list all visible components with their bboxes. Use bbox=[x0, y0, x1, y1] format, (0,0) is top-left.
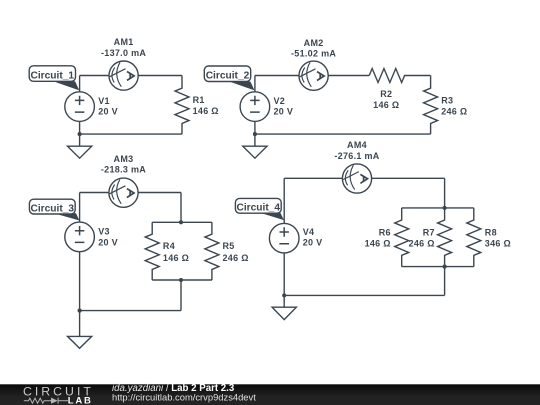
node junction dot C1 bbox=[78, 132, 82, 136]
wire: C3 top-right from AM3 to corner bbox=[138, 192, 181, 194]
resistor R2 bbox=[369, 69, 430, 83]
CircuitLab logo wordmark CIRCUIT bbox=[23, 384, 94, 398]
svg-text:146 Ω: 146 Ω bbox=[163, 253, 189, 263]
svg-text:246 Ω: 246 Ω bbox=[441, 107, 467, 117]
wire: C2 top from V2 corner to AM2 bbox=[255, 75, 299, 77]
ground C2 bbox=[243, 146, 267, 158]
node Circuit_3 callout bbox=[29, 199, 79, 220]
wire: C1 top-left from V1 corner to AM1 bbox=[80, 75, 109, 77]
CircuitLab logo wordmark LAB bbox=[68, 396, 93, 405]
label R6 value bbox=[365, 228, 391, 249]
wire: C3 top-left from V3 corner to AM3 bbox=[80, 192, 109, 194]
wire: C4 bottom bbox=[284, 294, 444, 296]
voltage source V1 bbox=[65, 76, 95, 147]
svg-text:LAB: LAB bbox=[68, 396, 93, 405]
svg-text:V1: V1 bbox=[98, 96, 110, 106]
svg-text:20 V: 20 V bbox=[303, 238, 323, 248]
svg-text:146 Ω: 146 Ω bbox=[365, 238, 391, 248]
svg-text:-137.0 mA: -137.0 mA bbox=[101, 48, 146, 58]
wire: C3 from rail bottom to bottom wire bbox=[180, 280, 182, 311]
svg-text:AM3: AM3 bbox=[114, 154, 134, 164]
voltage source V2 bbox=[240, 76, 270, 147]
resistor R4 bbox=[145, 222, 159, 280]
label R8 value bbox=[485, 228, 511, 249]
label V2 value bbox=[274, 96, 294, 117]
svg-text:Circuit_1: Circuit_1 bbox=[30, 71, 74, 82]
CircuitLab logo schematic squiggle and diode bbox=[24, 398, 68, 404]
label AM4 value bbox=[334, 140, 379, 161]
ammeter AM1 bbox=[109, 61, 138, 90]
node Circuit_1 callout bbox=[29, 66, 79, 91]
ground C4 bbox=[272, 307, 296, 319]
svg-text:20 V: 20 V bbox=[98, 237, 118, 247]
svg-text:146 Ω: 146 Ω bbox=[193, 106, 219, 116]
wire: C4 parallel bottom rail bbox=[402, 266, 474, 268]
resistor R6 bbox=[395, 208, 409, 267]
voltage source V3 bbox=[65, 193, 95, 337]
svg-text:20 V: 20 V bbox=[274, 107, 294, 117]
label R7 value bbox=[409, 228, 435, 249]
svg-text:V2: V2 bbox=[274, 96, 286, 106]
ammeter AM2 bbox=[299, 61, 328, 90]
wire: C3 bottom bbox=[80, 310, 181, 312]
svg-text:AM1: AM1 bbox=[114, 37, 134, 47]
svg-text:Circuit_3: Circuit_3 bbox=[30, 203, 74, 214]
wire: C4 from rail bottom to bottom wire bbox=[444, 267, 446, 296]
node junction dot C4 rail bottom bbox=[443, 265, 447, 269]
wire: C1 top-right from AM1 to R1 corner bbox=[138, 75, 182, 77]
ammeter AM4 bbox=[342, 164, 371, 193]
label R4 value bbox=[163, 241, 189, 263]
node junction dot C3 bbox=[78, 309, 82, 313]
svg-text:Circuit_2: Circuit_2 bbox=[206, 71, 250, 82]
svg-text:R2: R2 bbox=[380, 89, 392, 99]
label R2 value bbox=[373, 89, 399, 110]
wire: C1 bottom bbox=[80, 133, 182, 135]
label V3 value bbox=[98, 227, 118, 248]
svg-text:R7: R7 bbox=[423, 228, 435, 238]
label R5 value bbox=[223, 241, 249, 263]
node Circuit_4 callout bbox=[235, 198, 284, 220]
svg-text:20 V: 20 V bbox=[98, 107, 118, 117]
resistor R8 bbox=[467, 208, 481, 267]
svg-text:-218.3 mA: -218.3 mA bbox=[101, 164, 146, 174]
wire: C2 from AM2 to R2 bbox=[328, 75, 369, 77]
svg-text:246 Ω: 246 Ω bbox=[409, 238, 435, 248]
svg-text:AM2: AM2 bbox=[304, 38, 324, 48]
wire: C4 parallel top rail bbox=[402, 207, 474, 209]
svg-text:V4: V4 bbox=[303, 227, 315, 237]
svg-text:-51.02 mA: -51.02 mA bbox=[291, 49, 336, 59]
svg-text:http://circuitlab.com/crvp9dzs: http://circuitlab.com/crvp9dzs4devt bbox=[112, 391, 256, 402]
node junction dot C3 rail top bbox=[179, 220, 183, 224]
resistor R3 bbox=[424, 76, 438, 135]
label V4 value bbox=[303, 227, 323, 248]
resistor R7 bbox=[438, 208, 452, 267]
node junction dot C4 rail top bbox=[443, 206, 447, 210]
ground C3 bbox=[68, 336, 92, 348]
label AM2 value bbox=[291, 38, 336, 59]
ammeter AM3 bbox=[109, 178, 138, 207]
svg-text:-276.1 mA: -276.1 mA bbox=[334, 151, 379, 161]
svg-text:AM4: AM4 bbox=[347, 140, 367, 150]
wire: C2 bottom bbox=[255, 133, 431, 135]
voltage source V4 bbox=[269, 178, 299, 307]
wire: C3 right vertical into parallel block bbox=[180, 193, 182, 223]
wire: C4 top-right from AM4 to corner bbox=[372, 177, 445, 179]
svg-text:Circuit_4: Circuit_4 bbox=[236, 203, 280, 214]
label V1 value bbox=[98, 96, 118, 117]
svg-text:R6: R6 bbox=[379, 228, 391, 238]
svg-text:246 Ω: 246 Ω bbox=[223, 253, 249, 263]
node junction dot C4 bbox=[282, 293, 286, 297]
svg-text:R8: R8 bbox=[485, 228, 497, 238]
svg-text:R1: R1 bbox=[193, 95, 205, 105]
node Circuit_2 callout bbox=[204, 66, 254, 90]
wire: C3 parallel bottom rail bbox=[152, 279, 212, 281]
label R3 value bbox=[441, 96, 467, 117]
label AM1 value bbox=[101, 37, 146, 58]
label R1 value bbox=[193, 95, 219, 116]
svg-text:R5: R5 bbox=[223, 241, 235, 251]
wire: C3 parallel top rail bbox=[152, 221, 212, 223]
wire: C4 top-left from V4 corner to AM4 bbox=[284, 177, 342, 179]
footer title text bbox=[112, 383, 256, 402]
svg-text:V3: V3 bbox=[98, 227, 110, 237]
node junction dot C3 rail bottom bbox=[179, 278, 183, 282]
svg-text:146 Ω: 146 Ω bbox=[373, 100, 399, 110]
resistor R5 bbox=[205, 222, 219, 280]
svg-text:R3: R3 bbox=[441, 96, 453, 106]
resistor R1 bbox=[175, 76, 189, 135]
wire: C4 right vertical to parallel block bbox=[444, 178, 446, 208]
svg-text:R4: R4 bbox=[163, 241, 175, 251]
label AM3 value bbox=[101, 154, 146, 174]
node junction dot C2 bbox=[253, 132, 257, 136]
ground C1 bbox=[68, 146, 92, 158]
svg-text:346 Ω: 346 Ω bbox=[485, 238, 511, 248]
